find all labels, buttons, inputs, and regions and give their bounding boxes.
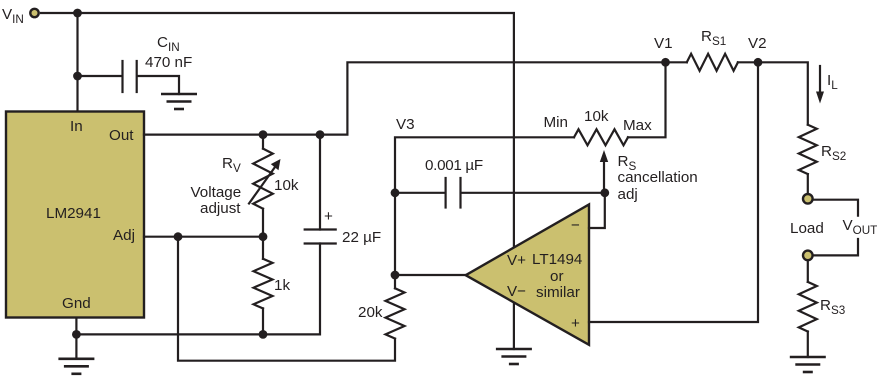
wire pot right to V1 — [628, 62, 666, 137]
svg-text:IL: IL — [827, 72, 838, 92]
svg-text:10k: 10k — [274, 177, 299, 194]
svg-text:+: + — [571, 315, 580, 332]
svg-text:or: or — [550, 268, 564, 285]
svg-text:LM2941: LM2941 — [46, 205, 101, 222]
capacitor 0.001uF — [446, 178, 461, 208]
wire ground rail to 22uF — [76, 244, 320, 335]
wire Adj feedback down and to 20k bottom — [178, 237, 395, 361]
wire CIN right plate to ground — [138, 76, 179, 94]
svg-text:+: + — [324, 208, 333, 225]
svg-text:RS1: RS1 — [701, 28, 726, 48]
wire VOUT bracket top — [814, 200, 858, 216]
junction Adj/feedback — [174, 232, 183, 241]
wire V1 to RS1 — [666, 61, 687, 63]
wire VIN rail to V+ supply corner — [41, 13, 514, 247]
wire V2 to RS2 branch — [758, 62, 808, 124]
svg-text:RV: RV — [222, 155, 241, 175]
resistor 20k — [386, 288, 405, 338]
pot wiper arrow — [600, 150, 608, 193]
junction Out/22uF — [316, 130, 325, 139]
wire op-amp V- to ground — [513, 303, 515, 349]
junction VIN/In — [73, 9, 82, 18]
svg-text:V−: V− — [507, 283, 526, 300]
junction V2 — [754, 58, 763, 67]
svg-text:RS2: RS2 — [821, 143, 846, 163]
junction V3/cap — [391, 188, 400, 197]
resistor RS2 — [799, 125, 817, 174]
svg-text:Adj: Adj — [113, 227, 135, 244]
svg-text:V+: V+ — [507, 252, 526, 269]
wire Out to top rail riser — [144, 62, 666, 134]
resistor RS1 — [687, 54, 738, 71]
svg-text:Gnd: Gnd — [62, 295, 91, 312]
resistor RS3 — [799, 282, 817, 332]
wire RS2 to load terminal — [807, 174, 809, 193]
wire V3 node — [395, 137, 574, 275]
wire 20k top stub — [394, 275, 396, 288]
junction CIN tap — [73, 72, 82, 81]
resistor RV 10k variable — [253, 149, 273, 209]
ground LM2941 — [58, 359, 94, 374]
wire minus input from pot wiper node — [589, 193, 605, 228]
wire load terminal to RS3 — [807, 261, 809, 282]
VIN input terminal — [30, 9, 38, 17]
wire VOUT bracket bottom — [814, 239, 858, 255]
wire VIN down to In pin — [76, 13, 78, 112]
wire cap left — [395, 192, 445, 194]
svg-text:CIN: CIN — [157, 34, 180, 54]
resistor 10k pot — [574, 129, 628, 145]
svg-text:adj: adj — [618, 186, 638, 203]
wire 1k top stub — [262, 237, 264, 259]
wire plus input to V2 — [589, 62, 758, 322]
svg-text:similar: similar — [536, 284, 580, 301]
svg-text:Load: Load — [790, 220, 824, 237]
current arrow IL — [816, 66, 824, 104]
svg-text:Max: Max — [623, 117, 652, 134]
svg-text:0.001 µF: 0.001 µF — [425, 157, 483, 174]
svg-text:In: In — [70, 118, 83, 135]
svg-text:VIN: VIN — [2, 6, 24, 26]
svg-text:20k: 20k — [358, 304, 383, 321]
ground RS3 — [790, 357, 826, 372]
wire 1k bottom stub — [262, 308, 264, 334]
svg-text:cancellation: cancellation — [618, 169, 698, 186]
svg-text:V1: V1 — [654, 35, 673, 52]
svg-text:Min: Min — [544, 114, 568, 131]
junction V1 — [661, 58, 670, 67]
svg-text:LT1494: LT1494 — [532, 251, 582, 268]
svg-text:RS3: RS3 — [820, 297, 845, 317]
svg-text:Out: Out — [109, 127, 134, 144]
regulator U1 LM2941 body — [6, 112, 144, 318]
svg-text:470 nF: 470 nF — [145, 54, 192, 71]
wire Gnd pin down — [75, 318, 77, 359]
svg-text:Voltage: Voltage — [191, 184, 242, 201]
wire RS3 to ground — [807, 332, 809, 358]
ground op-amp — [496, 349, 532, 364]
svg-text:22 µF: 22 µF — [342, 229, 381, 246]
op-amp U2 LT1494 — [466, 204, 589, 344]
svg-text:1k: 1k — [274, 277, 290, 294]
wire 22uF top — [319, 135, 321, 230]
svg-text:V2: V2 — [748, 35, 767, 52]
capacitor CIN — [123, 61, 137, 92]
svg-text:−: − — [571, 217, 580, 234]
wire cap right to minus node — [461, 192, 605, 194]
RV wiper arrow — [249, 159, 281, 204]
load terminal bottom — [803, 251, 813, 261]
junction Gnd rail — [72, 330, 81, 339]
svg-text:V3: V3 — [396, 116, 415, 133]
resistor 1k — [254, 259, 273, 309]
junction V3/output/20k — [391, 271, 400, 280]
junction Adj/RV/1k — [259, 232, 268, 241]
wire RV bottom stub — [262, 209, 264, 237]
capacitor 22uF — [305, 230, 336, 244]
svg-text:adjust: adjust — [200, 200, 241, 217]
wire RS1 to V2 — [738, 61, 758, 63]
junction Out/RV — [259, 130, 268, 139]
wire RV top stub — [262, 135, 264, 149]
wire to CIN left plate — [78, 75, 123, 77]
wire Adj pin — [144, 236, 263, 238]
ground CIN — [161, 94, 197, 109]
svg-text:10k: 10k — [584, 108, 609, 125]
wire op-amp output to V3 — [395, 274, 466, 276]
svg-text:VOUT: VOUT — [843, 217, 878, 237]
junction 1k/ground rail — [259, 330, 268, 339]
load terminal top — [803, 194, 813, 204]
junction minus node — [600, 188, 609, 197]
